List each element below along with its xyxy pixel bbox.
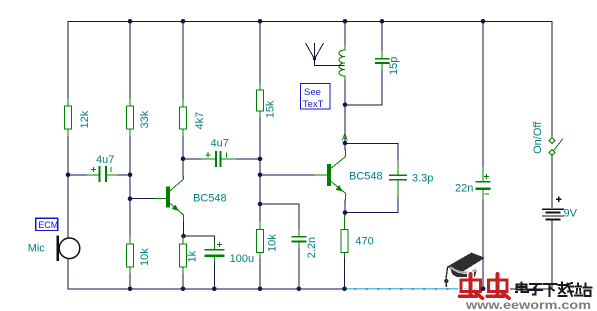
wire Q2 collector to node A [344,143,346,150]
junction top rail col3 [181,19,186,24]
capacitor C6 3.3p feedback [390,161,406,198]
junction tank bottom node [343,103,348,108]
wire col C7 upper [482,21,484,167]
svg-text:33k: 33k [139,110,151,128]
label box See TexT [300,83,330,110]
wire C1 right lead [118,174,130,176]
wire 12k bottom to mic node [67,137,69,176]
junction ground C3 [212,287,217,292]
svg-text:100u: 100u [230,253,254,265]
wire R8 to ground [344,258,346,289]
resistor R1 12k [65,99,72,137]
wire Q2 base [260,174,315,176]
junction col4 C2 node [258,157,263,162]
wire coil top to rail [344,21,346,44]
wire R5 to ground rail [129,274,131,289]
junction top rail coil [343,19,348,24]
watermark graduation cap [444,253,485,287]
junction top rail col4 [258,19,263,24]
antenna ANT1 [306,44,344,66]
svg-text:1k: 1k [186,250,198,262]
svg-text:4u7: 4u7 [96,154,114,166]
wire microphone to ground rail [67,259,69,289]
svg-text:470: 470 [355,236,373,248]
wire node A up to tank [344,105,346,143]
svg-text:3.3p: 3.3p [412,172,433,184]
wire mic node down to microphone [67,175,69,238]
watermark red character chong 1 [460,274,483,298]
wire C1 left lead [68,174,86,176]
wire 4k7 to collector node [182,137,184,178]
wire node A to C6 top [345,143,398,160]
wire C5 branch horizontal [260,204,299,230]
svg-text:10k: 10k [267,234,279,252]
svg-text:22n: 22n [455,182,473,194]
capacitor C3 100u electrolytic [206,243,224,263]
wire C2 right lead [236,158,260,160]
wire col4 upper [259,21,261,84]
wire column2 upper [129,21,131,99]
wire bottom ground rail [68,288,552,290]
resistor R5 10k [127,237,134,274]
junction ground col2 [128,287,133,292]
wire switch to battery [551,157,553,208]
wire 33k bottom to base node [129,137,131,200]
microphone ECM MIC1 [57,235,80,261]
svg-text:Mic: Mic [28,242,46,254]
wire emitter to R8 [344,213,346,216]
inductor L1 coil [339,45,345,80]
wire C7 ground lead repaint over watermark [482,274,484,289]
label box ECM [36,218,59,230]
wire emitter to C3 [184,236,215,243]
junction ground col4 [258,287,263,292]
wire 15k down to C2 node [259,118,261,204]
junction ground C7 repaint over watermark [481,287,486,292]
junction Q1 emitter node [181,234,186,239]
capacitor C1 4u7 [86,167,118,181]
wire C3 to ground [214,263,216,289]
wire 15p top to rail [381,21,383,50]
wire col4 down to R7 [259,204,261,222]
junction top rail col2 [128,19,133,24]
wire C5 to ground [298,249,300,289]
wire tank bottom to coil [344,79,346,105]
svg-text:ECM: ECM [38,220,58,230]
wire base node down to R5 [129,199,131,237]
resistor R6 1k [180,236,187,274]
wire Q1 base [130,198,155,200]
junction ground R8 [342,287,347,292]
svg-text:See: See [304,87,321,98]
wire C7 to ground [482,200,484,289]
junction col4 C5 node [258,202,263,207]
resistor R8 470 [341,215,348,258]
wire C6 bottom to emitter [345,198,398,213]
capacitor C2 4u7 coupling [201,152,237,166]
junction col2 base node [128,196,133,201]
svg-text:BC548: BC548 [349,170,383,182]
watermark red character chong 2 [487,274,509,298]
wire 1k to ground rail [182,274,184,289]
wire top supply rail [68,20,552,22]
transistor Q2 BC548 [315,150,346,200]
wire Q2 emitter node [344,200,346,213]
junction node A [343,141,348,146]
junction top rail C7 [481,19,486,24]
capacitor C4 15p tank [376,50,389,71]
junction ground C5 [297,287,302,292]
resistor R2 33k [127,99,134,137]
wire battery to ground rail [551,221,553,289]
battery B1 9V [543,197,564,219]
transistor Q1 BC548 [155,177,184,222]
svg-text:BC548: BC548 [193,193,227,205]
svg-text:4u7: 4u7 [211,138,229,150]
junction col2 C1 node [128,173,133,178]
junction col4 Q2 base node [258,173,263,178]
svg-text:9V: 9V [564,208,578,220]
svg-text:15p: 15p [388,57,400,75]
wire 15p bottom to tank node [345,71,382,105]
svg-text:www.eeworm.com: www.eeworm.com [465,298,591,311]
wire Q1 emitter node down [183,222,185,236]
resistor R4 15k [257,85,264,119]
wire right edge upper [551,21,553,136]
junction Q2 emitter node [343,210,348,215]
wire R7 to ground [259,258,261,289]
junction node mic/C1 [66,173,71,178]
svg-text:10k: 10k [139,248,151,266]
junction collector node C2 [181,156,186,161]
svg-text:2.2n: 2.2n [306,237,318,258]
svg-text:15k: 15k [265,100,277,118]
svg-text:TexT: TexT [303,99,324,110]
watermark black text dianzi xiazaizhan [516,283,592,297]
capacitor C5 2.2n [293,230,306,249]
svg-text:12k: 12k [79,110,91,128]
wire C2 left lead [183,158,201,160]
wire left column upper [67,21,69,99]
capacitor C7 22n electrolytic [477,167,490,200]
resistor R7 10k [257,222,264,258]
junction ground C7 [481,287,486,292]
switch SW1 On/Off [549,137,562,158]
wire col3 upper [182,21,184,100]
resistor R3 4k7 [180,100,187,137]
svg-text:4k7: 4k7 [194,112,206,130]
svg-text:On/Off: On/Off [532,121,544,154]
watermark white halo under red characters [460,274,510,298]
junction top rail 15p [380,19,385,24]
junction ground col3 [181,287,186,292]
wire ground rail cyan dashed overlay [346,288,481,290]
